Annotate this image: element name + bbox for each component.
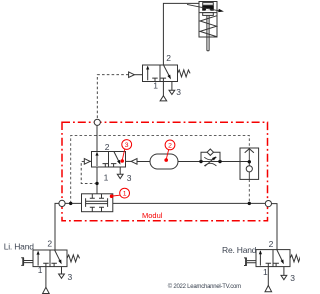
svg-text:2: 2 xyxy=(47,238,52,248)
supply source at V4 port 1 xyxy=(267,267,269,286)
svg-text:1: 1 xyxy=(123,191,127,198)
svg-text:Modul: Modul xyxy=(142,211,163,220)
callout 1 xyxy=(110,188,130,198)
svg-text:1: 1 xyxy=(104,172,109,182)
inner dashed boundary xyxy=(71,135,250,203)
callout 2 xyxy=(164,140,175,162)
exhaust at V1 port 3 xyxy=(171,82,173,91)
exhaust at V4 port 3 xyxy=(283,267,285,276)
exhaust at V2 port 3 xyxy=(119,167,121,174)
supply source at V1 port 1 xyxy=(162,82,164,96)
valve V2 (module 3/2-way valve, shown actuated) xyxy=(84,142,137,183)
junction xyxy=(248,202,251,205)
sensor block xyxy=(240,148,259,179)
wire: node to V2 port 2 xyxy=(96,125,98,151)
supply source at V3 port 1 xyxy=(45,267,47,288)
right pilot of V2 xyxy=(131,159,137,165)
svg-text:Re. Hand: Re. Hand xyxy=(222,245,257,255)
wire: reservoir to sensor block xyxy=(178,161,249,163)
node on module border (right) xyxy=(265,201,271,207)
exhaust at V3 port 3 xyxy=(61,267,63,274)
svg-text:3: 3 xyxy=(176,87,181,97)
wire: left node down to valve Li xyxy=(55,203,59,250)
svg-text:1: 1 xyxy=(153,80,158,90)
svg-text:2: 2 xyxy=(168,142,172,149)
pilot line (dashed) from module to V1 xyxy=(97,75,128,120)
junction xyxy=(95,182,98,185)
wire: right pilot to reservoir xyxy=(137,161,150,163)
svg-text:3: 3 xyxy=(127,173,132,183)
node on module border (top) xyxy=(94,119,100,125)
valve V3 Li. Hand (3/2 push-button, spring return) xyxy=(21,238,79,293)
throttle arcs xyxy=(204,157,216,160)
bottom wire left segment xyxy=(65,202,82,204)
adjustment arrow xyxy=(205,158,215,167)
two-pressure valve (AND) xyxy=(82,194,113,212)
left pilot of V2 xyxy=(84,159,90,165)
spring of V1 xyxy=(178,70,191,77)
wire: right node down to valve Re xyxy=(271,204,277,250)
svg-text:2: 2 xyxy=(105,142,110,152)
air reservoir (oval) xyxy=(150,154,178,169)
node on module border (left) xyxy=(59,200,65,206)
svg-text:2: 2 xyxy=(269,239,274,249)
pilot line (dashed) of V2 left pilot xyxy=(81,161,95,183)
svg-text:Li. Hand: Li. Hand xyxy=(4,241,35,251)
svg-text:3: 3 xyxy=(125,142,129,149)
valve V4 Re. Hand (3/2 push-button, spring return) xyxy=(244,239,303,292)
piston position marker arrow xyxy=(187,4,224,12)
one-way flow control valve xyxy=(199,149,221,166)
wire: V2 port 1 down to two-pressure valve xyxy=(96,167,98,194)
pilot of V1 xyxy=(134,74,142,76)
svg-text:3: 3 xyxy=(68,272,73,282)
callout 3 xyxy=(120,140,131,163)
wire: valve V1 port 2 up and across to cylinder xyxy=(163,3,199,65)
svg-text:1: 1 xyxy=(263,267,268,277)
cylinder 1A (single-acting, spring return) xyxy=(199,2,217,51)
push button of V4 xyxy=(247,261,256,263)
push button of V3 xyxy=(24,261,33,263)
svg-text:3: 3 xyxy=(290,273,295,283)
svg-text:2: 2 xyxy=(166,53,171,63)
check valve diamond xyxy=(207,149,213,155)
junction xyxy=(69,202,72,205)
svg-text:1: 1 xyxy=(38,265,43,275)
bottom wire right segment xyxy=(113,202,266,204)
module boundary (red dash-dot) xyxy=(62,122,268,221)
svg-text:© 2022 Learnchannel-TV.com: © 2022 Learnchannel-TV.com xyxy=(168,283,241,290)
valve V1 (3/2-way pneumatic pilot valve, spring return) xyxy=(129,53,191,101)
